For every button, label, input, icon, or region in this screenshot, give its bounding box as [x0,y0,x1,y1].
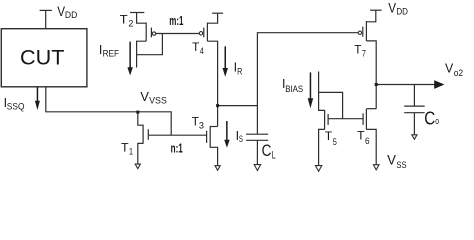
power VDD symbol (left, above CUT) [40,10,52,28]
svg-text:7: 7 [362,49,366,60]
label T_3 [192,115,204,132]
ground (under T1) [135,164,140,169]
svg-text:VSS: VSS [149,96,167,107]
svg-text:V: V [388,0,396,15]
svg-text:BIAS: BIAS [285,84,303,94]
capacitor C0 [404,85,425,135]
svg-text:o: o [435,116,439,126]
svg-text:CUT: CUT [20,47,65,70]
svg-text:5: 5 [333,137,337,148]
node dot: output node [375,83,378,86]
wire: gate line T2 to T4 (m:1 mirror) [156,33,200,35]
svg-text:L: L [272,149,276,161]
node dot: mirror node (T4/T3 drains) [216,104,219,107]
transistor T5 (NMOS, diode-connected bias) [319,72,343,166]
svg-text:1: 1 [129,147,133,158]
wire: output node to Vo2 [376,84,435,86]
ground (under T3) [215,166,220,171]
label I_R [234,61,243,78]
svg-text:6: 6 [365,136,370,147]
ground (under T6) [373,165,379,170]
CUT block (circuit under test) [1,29,87,87]
current arrow I_SSQ [35,87,40,110]
svg-text:SSQ: SSQ [7,102,25,113]
wire: CUT bottom to V_VSS node, to T1/T3 gate line [46,87,171,135]
label I_REF [99,43,119,60]
ground (under CL) [254,165,260,171]
output arrowhead Vo2 [434,80,444,89]
svg-text:SS: SS [396,160,406,171]
svg-text:o2: o2 [454,68,464,79]
label I_BIAS [282,77,303,94]
wire: mirror node to T7 gate [218,33,359,106]
ground (under C0) [412,135,417,140]
svg-text:V: V [140,89,149,104]
transistor T2 (PMOS, diode-connected) [130,13,162,68]
svg-text:T: T [325,129,333,143]
label C_L [262,142,276,162]
power VDD symbol (right, above T7) [370,9,382,11]
svg-text:DD: DD [396,6,408,17]
svg-text:V: V [387,153,396,168]
label V_DD (left) [57,3,77,21]
label T_4 [192,40,204,57]
wire: gate line T1 to T3 (n:1 mirror) [148,134,206,136]
svg-text:S: S [239,134,243,145]
label T_5 [325,129,337,148]
svg-text:4: 4 [200,46,204,57]
svg-text:R: R [237,67,242,78]
capacitor CL [246,106,268,165]
label V_DD (right) [388,0,408,17]
label T_7 [354,43,366,60]
current arrow I_S [224,121,230,148]
node dot: T1 drain on VSS wire [136,111,139,114]
svg-text:2: 2 [128,19,133,30]
label C_0 [424,108,439,128]
label V_o2 [445,61,463,79]
wire: gate line T5 to T6 [328,118,363,120]
label I_SSQ [4,96,25,112]
transistor T4 (PMOS, mirror output) [199,13,223,126]
transistor T6 (NMOS) [363,109,376,165]
ground (under T5) [315,166,321,172]
transistor T7 (PMOS output) [358,10,376,109]
svg-text:V: V [445,61,454,76]
current arrow I_BIAS [308,72,314,108]
svg-text:n:1: n:1 [171,141,183,156]
transistor T1 (NMOS, diode-connected) [138,112,149,164]
label V_SS [387,153,407,171]
label T_6 [357,129,370,148]
label T_1 [121,140,133,157]
svg-text:REF: REF [103,49,120,60]
label T_2 [120,12,134,29]
svg-text:m:1: m:1 [169,13,183,28]
label V_VSS [140,89,167,107]
svg-text:T: T [192,40,200,54]
svg-text:C: C [424,108,435,128]
svg-text:DD: DD [65,10,78,21]
svg-text:T: T [354,43,362,57]
svg-text:T: T [120,12,129,26]
current arrow I_REF [127,42,132,76]
svg-text:C: C [262,142,272,160]
current arrow I_R [223,46,229,77]
svg-text:3: 3 [199,121,204,132]
transistor T3 (NMOS, mirror output) [207,126,218,166]
label I_S [236,129,243,145]
